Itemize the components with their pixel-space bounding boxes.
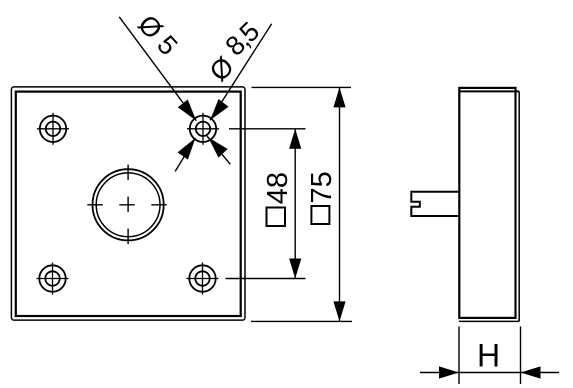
extension line from bottom-right hole: [226, 278, 306, 280]
leader tail diameter 8.5 lower: [175, 138, 195, 171]
dimension 48 arrow bottom: [289, 259, 301, 279]
hole top-left inner circle: [46, 122, 60, 136]
extension line from top-right hole: [229, 128, 306, 130]
hole bottom-right outer circle: [189, 265, 215, 291]
dimension line 75: [339, 87, 341, 321]
extension line from plate top edge: [252, 86, 352, 88]
central bore center line horizontal: [87, 204, 167, 206]
central bore center line vertical: [127, 165, 129, 245]
leader arrow diameter 8.5 lower: [178, 138, 196, 160]
hole top-left center cross: [37, 128, 69, 130]
dimension H arrow right: [521, 366, 541, 378]
dimension 48 arrow top: [289, 129, 301, 149]
svg-text:Ø5: Ø5: [132, 9, 188, 66]
hole top-left outer circle: [40, 116, 66, 142]
svg-text:8,5: 8,5: [220, 17, 265, 62]
svg-text:75: 75: [306, 171, 338, 203]
dimension line 48: [294, 129, 296, 279]
dimension H arrow left: [439, 366, 459, 378]
leader arrow diameter 5 upper: [178, 100, 197, 121]
leader line diameter 5: [119, 17, 196, 121]
extension line H right: [520, 327, 522, 385]
leader arrow diameter 5 lower: [208, 137, 228, 157]
side view top face edge: [459, 90, 519, 92]
hole bottom-left outer circle: [39, 265, 65, 291]
leader line diameter 8.5: [210, 24, 272, 121]
leader arrow diameter 8.5 upper: [210, 99, 229, 120]
side view back edge right: [518, 91, 520, 321]
hole bottom-right inner circle: [195, 271, 209, 285]
dimension 75 arrow bottom: [333, 301, 345, 321]
central bore inner circle: [96, 173, 160, 237]
svg-text:H: H: [477, 337, 500, 373]
hole bottom-right center cross: [187, 278, 219, 280]
side view body: [459, 88, 515, 318]
svg-text:48: 48: [262, 172, 294, 204]
central bore outer circle: [93, 169, 164, 240]
hole bottom-left center cross: [37, 278, 69, 280]
dimension 75 arrow top: [333, 87, 345, 107]
square symbol for 75: [311, 206, 329, 224]
side view terminal tab: [411, 192, 458, 216]
hole bottom-left inner circle: [45, 271, 59, 285]
side view back edge bottom: [459, 320, 519, 322]
square symbol for 48: [267, 208, 286, 227]
dimension line H: [420, 372, 559, 374]
leader tail diameter 5 lower: [207, 136, 230, 164]
extension line H left: [458, 327, 460, 385]
extension line from plate bottom edge: [251, 320, 352, 322]
hole top-right inner circle: [196, 122, 210, 136]
front view plate outer contour: [11, 87, 245, 320]
hole top-right center cross: [187, 128, 219, 130]
front view plate inner contour: [16, 92, 241, 316]
hole top-right outer circle: [190, 116, 216, 142]
